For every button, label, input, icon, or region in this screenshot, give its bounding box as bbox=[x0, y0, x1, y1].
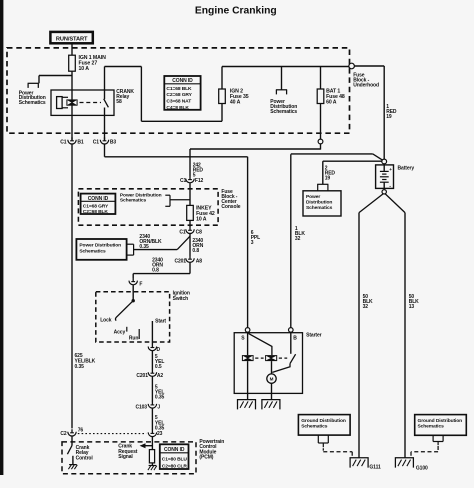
svg-text:C8: C8 bbox=[196, 229, 203, 235]
svg-text:23: 23 bbox=[157, 431, 163, 437]
svg-text:Ground Distribution: Ground Distribution bbox=[418, 418, 463, 424]
svg-text:C1=80 BLU: C1=80 BLU bbox=[162, 456, 188, 462]
svg-text:Ground Distribution: Ground Distribution bbox=[301, 418, 346, 424]
svg-text:C3=68 NAT: C3=68 NAT bbox=[166, 99, 191, 105]
svg-text:58: 58 bbox=[116, 99, 122, 105]
svg-text:B3: B3 bbox=[110, 140, 117, 146]
svg-text:C4=8 BLK: C4=8 BLK bbox=[166, 105, 189, 111]
svg-text:Schematics: Schematics bbox=[301, 424, 328, 430]
svg-text:G100: G100 bbox=[416, 465, 428, 471]
svg-text:0.5: 0.5 bbox=[155, 364, 162, 370]
svg-text:Start: Start bbox=[155, 319, 166, 325]
svg-text:Power Distribution: Power Distribution bbox=[79, 243, 121, 249]
svg-text:Engine Cranking: Engine Cranking bbox=[195, 6, 277, 17]
svg-text:32: 32 bbox=[363, 304, 369, 310]
svg-text:0.35: 0.35 bbox=[75, 364, 85, 370]
svg-text:19: 19 bbox=[386, 114, 392, 120]
svg-text:Switch: Switch bbox=[173, 296, 189, 302]
svg-text:Schematics: Schematics bbox=[306, 205, 333, 211]
svg-text:Schematics: Schematics bbox=[19, 100, 46, 106]
svg-text:C1: C1 bbox=[93, 140, 100, 146]
svg-text:Schematics: Schematics bbox=[270, 109, 297, 115]
svg-text:Control: Control bbox=[76, 456, 94, 462]
svg-text:CONN ID: CONN ID bbox=[164, 447, 185, 453]
svg-text:0.8: 0.8 bbox=[192, 248, 199, 254]
svg-text:C2=68 GRY: C2=68 GRY bbox=[166, 92, 192, 98]
svg-text:C1: C1 bbox=[60, 140, 67, 146]
svg-text:Run: Run bbox=[129, 335, 138, 341]
svg-text:10 A: 10 A bbox=[79, 66, 90, 72]
svg-text:CONN ID: CONN ID bbox=[172, 78, 193, 84]
svg-text:Lock: Lock bbox=[100, 318, 112, 324]
svg-text:32: 32 bbox=[295, 236, 301, 242]
svg-text:(PCM): (PCM) bbox=[199, 455, 213, 461]
svg-text:19: 19 bbox=[325, 175, 331, 181]
svg-text:A2: A2 bbox=[157, 373, 164, 379]
svg-text:C103: C103 bbox=[135, 404, 147, 410]
svg-text:Console: Console bbox=[221, 204, 240, 210]
svg-text:B: B bbox=[293, 335, 297, 341]
svg-text:C1: C1 bbox=[179, 229, 186, 235]
svg-text:+: + bbox=[389, 167, 392, 172]
svg-text:40 A: 40 A bbox=[230, 99, 241, 105]
svg-text:C1=68 BLK: C1=68 BLK bbox=[166, 86, 192, 92]
svg-text:76: 76 bbox=[78, 427, 84, 433]
svg-text:G111: G111 bbox=[369, 464, 381, 470]
svg-text:0.35: 0.35 bbox=[139, 244, 149, 250]
svg-text:C201: C201 bbox=[174, 258, 186, 264]
svg-text:0.8: 0.8 bbox=[152, 268, 159, 274]
svg-text:RUN/START: RUN/START bbox=[56, 37, 88, 43]
svg-text:3: 3 bbox=[251, 240, 254, 246]
svg-text:10 A: 10 A bbox=[196, 216, 207, 222]
svg-text:Starter: Starter bbox=[306, 333, 322, 339]
svg-text:A8: A8 bbox=[196, 258, 203, 264]
svg-text:Schematics: Schematics bbox=[418, 424, 445, 430]
svg-text:M: M bbox=[270, 377, 274, 382]
svg-text:C1=68 GRY: C1=68 GRY bbox=[83, 204, 109, 210]
svg-text:13: 13 bbox=[409, 304, 415, 310]
svg-text:C1: C1 bbox=[180, 178, 187, 184]
svg-text:Signal: Signal bbox=[118, 454, 133, 460]
svg-text:Schematics: Schematics bbox=[120, 197, 147, 203]
svg-text:-: - bbox=[389, 184, 391, 190]
svg-text:C2: C2 bbox=[60, 431, 67, 437]
svg-text:D: D bbox=[157, 347, 161, 353]
svg-text:C2=80 CLR: C2=80 CLR bbox=[162, 463, 188, 469]
svg-text:5: 5 bbox=[193, 173, 196, 179]
svg-text:Schematics: Schematics bbox=[79, 249, 106, 255]
svg-text:0.35: 0.35 bbox=[155, 395, 165, 401]
svg-text:Underhood: Underhood bbox=[353, 82, 379, 88]
svg-text:F: F bbox=[139, 282, 142, 288]
svg-text:Battery: Battery bbox=[398, 165, 415, 171]
svg-text:60 A: 60 A bbox=[326, 99, 337, 105]
svg-text:B1: B1 bbox=[77, 140, 84, 146]
svg-text:Distribution: Distribution bbox=[306, 199, 332, 205]
svg-text:Accy: Accy bbox=[114, 330, 126, 336]
svg-text:Power: Power bbox=[306, 194, 320, 200]
svg-text:J: J bbox=[157, 404, 160, 410]
svg-text:F12: F12 bbox=[195, 178, 204, 184]
svg-text:CONN ID: CONN ID bbox=[88, 196, 109, 202]
svg-text:C201: C201 bbox=[136, 373, 148, 379]
svg-text:C2=68 BLK: C2=68 BLK bbox=[83, 209, 109, 215]
